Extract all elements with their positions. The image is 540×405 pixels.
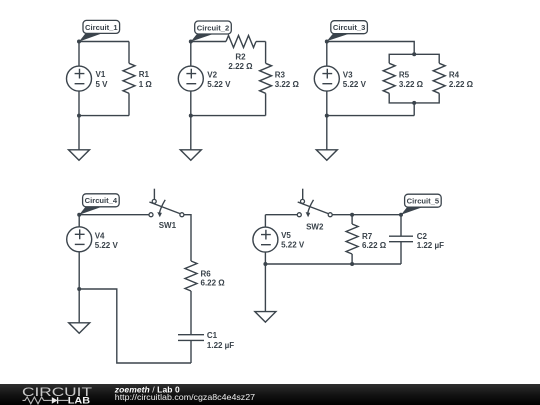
switch SW2 <box>297 189 332 232</box>
node c2 bottom <box>189 114 193 118</box>
wire V2 bottom lead <box>190 91 192 116</box>
wire bottom rail c1 <box>79 115 129 117</box>
wire R7 bottom lead <box>351 254 353 264</box>
ground c3 <box>316 150 337 161</box>
svg-text:1.22 µF: 1.22 µF <box>417 241 444 250</box>
resistor R3 <box>260 63 300 93</box>
node c1 bottom <box>77 114 81 118</box>
svg-text:6.22 Ω: 6.22 Ω <box>201 279 226 288</box>
node c5 top right <box>399 213 403 217</box>
ground c4 <box>69 323 90 334</box>
capacitor C2 <box>389 232 444 250</box>
node c5 R7 junction top <box>350 213 354 217</box>
wire R1 top lead <box>128 42 130 64</box>
svg-text:R3: R3 <box>275 70 286 79</box>
wire V4 top lead <box>78 215 80 227</box>
logo resistor-diode glyph <box>23 397 49 404</box>
wire R7 top lead <box>351 215 353 224</box>
wire top rail c1 <box>79 41 129 43</box>
svg-text:1.22 µF: 1.22 µF <box>207 341 234 350</box>
svg-text:V1: V1 <box>96 70 106 79</box>
svg-text:5.22 V: 5.22 V <box>95 241 119 250</box>
svg-text:Circuit_3: Circuit_3 <box>333 23 366 32</box>
svg-text:1 Ω: 1 Ω <box>139 80 153 89</box>
wire ground stem c3 <box>326 116 328 150</box>
wire C2 top lead <box>400 215 402 236</box>
voltage source V3 <box>314 66 366 91</box>
svg-text:V3: V3 <box>343 70 353 79</box>
svg-text:LAB: LAB <box>68 395 90 405</box>
wire ground stem c2 <box>190 116 192 150</box>
svg-text:Circuit_1: Circuit_1 <box>85 23 118 32</box>
resistor R7 <box>346 224 387 254</box>
wire bottom rail c5 <box>265 263 401 265</box>
svg-text:5 V: 5 V <box>96 80 109 89</box>
wire top rail right c2 <box>256 41 266 43</box>
svg-text:2.22 Ω: 2.22 Ω <box>228 62 253 71</box>
node c1 top <box>77 40 81 44</box>
svg-text:5.22 V: 5.22 V <box>281 240 305 249</box>
ground c2 <box>180 150 201 161</box>
svg-text:http://circuitlab.com/cgza8c4e: http://circuitlab.com/cgza8c4e4sz27 <box>115 392 256 402</box>
voltage source V1 <box>67 66 109 91</box>
svg-text:5.22 V: 5.22 V <box>207 80 231 89</box>
node c3 top <box>325 40 329 44</box>
ground c1 <box>69 150 90 161</box>
resistor R4 <box>433 63 473 93</box>
resistor R2 <box>226 36 256 71</box>
ground c5 <box>255 312 276 323</box>
label Circuit_1 <box>79 20 120 41</box>
node c5 left bottom <box>263 262 267 266</box>
node c2 top <box>189 40 193 44</box>
wire V1 top lead <box>78 42 80 67</box>
node c4 top <box>77 213 81 217</box>
svg-text:R2: R2 <box>235 53 246 62</box>
node c3 parallel bottom <box>412 101 416 105</box>
wire V3 top lead <box>326 42 328 67</box>
node c3 bottom <box>325 114 329 118</box>
svg-text:C2: C2 <box>417 232 428 241</box>
wire top rail c4 left <box>79 214 149 216</box>
wire top rail c5 left <box>265 214 297 216</box>
wire top rail c5 right <box>332 214 401 216</box>
svg-text:V2: V2 <box>207 70 217 79</box>
svg-text:V4: V4 <box>95 231 105 240</box>
wire bottom rail c4 <box>79 289 191 363</box>
switch SW1 <box>149 189 184 230</box>
wire parallel top arms c3 <box>389 54 439 63</box>
resistor R5 <box>383 63 423 93</box>
svg-text:R4: R4 <box>449 70 460 79</box>
wire R1 bottom lead <box>128 93 130 115</box>
svg-text:R5: R5 <box>399 70 410 79</box>
svg-text:R7: R7 <box>362 232 373 241</box>
svg-text:Circuit_2: Circuit_2 <box>197 23 230 32</box>
wire bottom rail c3 <box>327 115 414 117</box>
svg-text:3.22 Ω: 3.22 Ω <box>275 80 300 89</box>
wire V1 bottom lead <box>78 91 80 116</box>
svg-text:6.22 Ω: 6.22 Ω <box>362 241 387 250</box>
wire ground stem c1 <box>78 116 80 150</box>
wire R3 top lead <box>265 42 267 64</box>
node c5 R7 junction bottom <box>350 262 354 266</box>
wire c3 middle drop <box>413 103 415 116</box>
wire top rail left c2 <box>191 41 226 43</box>
wire V3 bottom lead <box>326 91 328 116</box>
voltage source V5 <box>253 227 305 252</box>
svg-text:Circuit_4: Circuit_4 <box>85 196 118 205</box>
wire C1 bottom lead <box>190 340 192 363</box>
resistor R1 <box>123 63 152 93</box>
voltage source V2 <box>178 66 231 91</box>
node c4 bottom <box>77 287 81 291</box>
wire ground stem c5 <box>264 264 266 312</box>
svg-text:SW2: SW2 <box>306 222 324 231</box>
wire bottom rail c2 <box>191 115 266 117</box>
resistor R6 <box>185 261 225 291</box>
svg-text:SW1: SW1 <box>159 221 177 230</box>
label Circuit_5 <box>401 194 441 215</box>
wire V5 top lead <box>264 215 266 227</box>
svg-text:3.22 Ω: 3.22 Ω <box>399 80 424 89</box>
voltage source V4 <box>67 227 119 252</box>
svg-text:5.22 V: 5.22 V <box>343 80 367 89</box>
wire R3 bottom lead <box>265 93 267 115</box>
wire top rail c4 right <box>184 215 191 261</box>
wire R6 to C1 <box>190 291 192 334</box>
label Circuit_4 <box>79 194 119 215</box>
wire C2 bottom lead <box>400 242 402 264</box>
label Circuit_2 <box>191 21 231 42</box>
wire ground stem c4 <box>78 289 80 323</box>
svg-text:C1: C1 <box>207 331 218 340</box>
svg-text:V5: V5 <box>281 231 291 240</box>
node c3 parallel top <box>412 52 416 56</box>
capacitor C1 <box>178 331 234 350</box>
wire V2 top lead <box>190 42 192 67</box>
wire top rail c3 <box>327 42 414 55</box>
wire V4 bottom lead <box>78 252 80 289</box>
wire parallel bottom arms c3 <box>389 93 439 103</box>
wire V5 bottom lead <box>264 252 266 264</box>
svg-text:R6: R6 <box>201 270 212 279</box>
svg-text:R1: R1 <box>139 70 150 79</box>
svg-text:2.22 Ω: 2.22 Ω <box>449 80 474 89</box>
svg-text:Circuit_5: Circuit_5 <box>407 197 440 206</box>
label Circuit_3 <box>327 21 368 41</box>
